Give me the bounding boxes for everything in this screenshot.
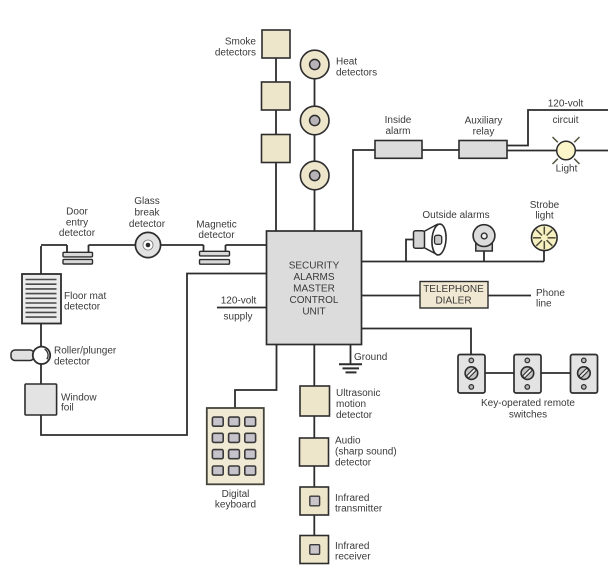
label digital keyboard: [215, 489, 256, 511]
label ultrasonic motion detector: [336, 388, 380, 421]
label heat detectors: [336, 57, 377, 79]
label window foil: [61, 393, 97, 414]
window foil: [25, 384, 57, 415]
key switch 1: [458, 355, 485, 394]
lamp L1 light: [557, 141, 576, 160]
svg-text:line: line: [536, 299, 552, 310]
wire bell drop: [483, 250, 485, 262]
audio detector: [300, 438, 329, 466]
wire phone line: [488, 295, 531, 297]
infrared receiver: [300, 536, 329, 564]
inside alarm: [375, 141, 422, 159]
wire: [313, 416, 315, 438]
svg-text:Outside alarms: Outside alarms: [422, 210, 489, 221]
wire heat chain: [314, 64, 316, 231]
smoke detector 3: [262, 135, 291, 163]
smoke detector 2: [262, 82, 291, 110]
svg-text:120-volt: 120-volt: [221, 296, 257, 307]
svg-text:supply: supply: [224, 312, 253, 323]
wire: [313, 466, 315, 487]
label key-operated remote switches: [481, 398, 575, 420]
wire smoke chain: [275, 44, 277, 231]
svg-text:Infrared: Infrared: [335, 541, 369, 552]
svg-text:motion: motion: [336, 399, 366, 410]
svg-text:detector: detector: [129, 219, 166, 230]
svg-text:Ground: Ground: [354, 352, 387, 363]
auxiliary relay: [459, 141, 507, 159]
svg-text:detectors: detectors: [336, 68, 377, 79]
ground: [339, 364, 362, 372]
svg-text:relay: relay: [473, 127, 495, 138]
svg-text:Inside: Inside: [385, 115, 412, 126]
label telephone dialer: [423, 284, 484, 306]
strobe light: [532, 225, 558, 251]
svg-text:Magnetic: Magnetic: [196, 220, 237, 231]
wire 120-volt supply: [217, 307, 267, 309]
wire door chain top: [41, 244, 67, 246]
wire key switch link 2: [541, 372, 571, 374]
horn outside alarm: [414, 224, 448, 256]
wire relay to light: [507, 150, 557, 152]
label strobe light: [530, 200, 560, 222]
svg-text:Smoke: Smoke: [225, 37, 257, 48]
wire key switch feed: [362, 329, 472, 355]
svg-text:Glass: Glass: [134, 196, 160, 207]
svg-text:foil: foil: [61, 403, 74, 414]
heat detector 2: [300, 106, 329, 135]
svg-text:Auxiliary: Auxiliary: [465, 116, 503, 127]
roller/plunger detector: [11, 347, 50, 364]
svg-text:transmitter: transmitter: [335, 504, 383, 515]
label door entry detector: [59, 207, 96, 240]
svg-text:entry: entry: [66, 217, 88, 228]
svg-text:120-volt: 120-volt: [548, 99, 584, 110]
svg-text:MASTER: MASTER: [293, 284, 335, 295]
svg-text:Heat: Heat: [336, 57, 357, 68]
glass break detector: [135, 232, 160, 257]
svg-text:detectors: detectors: [215, 48, 256, 59]
svg-text:UNIT: UNIT: [302, 307, 325, 318]
label magnetic detector: [196, 220, 237, 242]
infrared transmitter: [300, 487, 329, 515]
svg-text:Phone: Phone: [536, 288, 565, 299]
lamp rays: [553, 137, 580, 164]
key switch 3: [571, 355, 598, 394]
key switch 2: [514, 355, 541, 394]
wire alarm row: [422, 149, 459, 151]
svg-text:Infrared: Infrared: [335, 493, 369, 504]
label 120-volt supply: [221, 296, 257, 323]
svg-text:Key-operated remote: Key-operated remote: [481, 398, 575, 409]
svg-text:CONTROL: CONTROL: [290, 295, 339, 306]
wire light to edge: [575, 150, 608, 152]
svg-text:(sharp sound): (sharp sound): [335, 447, 397, 458]
label auxiliary relay: [465, 116, 503, 138]
svg-text:receiver: receiver: [335, 552, 371, 563]
svg-text:keyboard: keyboard: [215, 500, 256, 511]
svg-text:DIALER: DIALER: [435, 295, 471, 306]
svg-text:Roller/plunger: Roller/plunger: [54, 346, 117, 357]
smoke detector 1: [262, 30, 290, 58]
svg-text:Strobe: Strobe: [530, 200, 560, 211]
svg-text:Floor mat: Floor mat: [64, 291, 106, 302]
label smoke detectors: [215, 37, 257, 59]
svg-text:ALARMS: ALARMS: [293, 272, 334, 283]
wire left perimeter loop: [41, 246, 267, 435]
svg-text:light: light: [535, 211, 554, 222]
wire strobe drop: [543, 249, 545, 262]
wire ground lead: [350, 345, 352, 365]
digital keyboard: [207, 408, 264, 484]
svg-text:Light: Light: [556, 164, 578, 175]
svg-text:Digital: Digital: [222, 489, 250, 500]
label 120-volt circuit: [548, 99, 584, 127]
label audio detector: [335, 436, 397, 469]
ultrasonic motion detector: [300, 386, 330, 416]
label roller/plunger detector: [54, 346, 117, 368]
control unit U1: [267, 231, 362, 345]
svg-text:detector: detector: [59, 228, 96, 239]
wire: [313, 515, 315, 536]
svg-text:Door: Door: [66, 207, 88, 218]
label glass break detector: [129, 196, 166, 230]
wire: [89, 244, 204, 246]
svg-text:circuit: circuit: [552, 115, 578, 126]
svg-text:alarm: alarm: [385, 126, 410, 137]
wire telephone dialer left: [362, 295, 421, 297]
svg-text:TELEPHONE: TELEPHONE: [423, 284, 484, 295]
wire inside alarm drop: [353, 150, 375, 231]
svg-text:detector: detector: [64, 302, 101, 313]
heat detector 3: [300, 161, 329, 190]
label inside alarm: [385, 115, 412, 137]
wire outside alarm bus: [362, 261, 545, 263]
svg-text:detector: detector: [54, 357, 91, 368]
door entry detector: [63, 245, 93, 264]
svg-text:detector: detector: [335, 458, 372, 469]
floor mat detector: [22, 274, 61, 324]
label control unit: [289, 261, 340, 318]
svg-text:Ultrasonic: Ultrasonic: [336, 388, 380, 399]
wire horn drop: [406, 240, 415, 262]
svg-text:SECURITY: SECURITY: [289, 261, 340, 272]
telephone dialer: [420, 282, 488, 309]
svg-text:detector: detector: [336, 410, 373, 421]
svg-text:Audio: Audio: [335, 436, 361, 447]
svg-text:detector: detector: [198, 230, 235, 241]
label floor mat detector: [64, 291, 106, 313]
wire: [226, 244, 267, 246]
wire 120-volt circuit tap: [507, 110, 608, 146]
wire keyboard feed: [235, 345, 277, 409]
label infrared receiver: [335, 541, 371, 563]
svg-text:switches: switches: [509, 409, 547, 420]
wire key switch link 1: [485, 372, 514, 374]
label infrared transmitter: [335, 493, 383, 515]
svg-text:break: break: [134, 208, 160, 219]
heat detector 1: [300, 50, 329, 79]
label phone line: [536, 288, 565, 310]
wire detector chain: [313, 345, 315, 387]
magnetic detector: [200, 245, 230, 264]
bell outside alarm: [473, 225, 495, 251]
